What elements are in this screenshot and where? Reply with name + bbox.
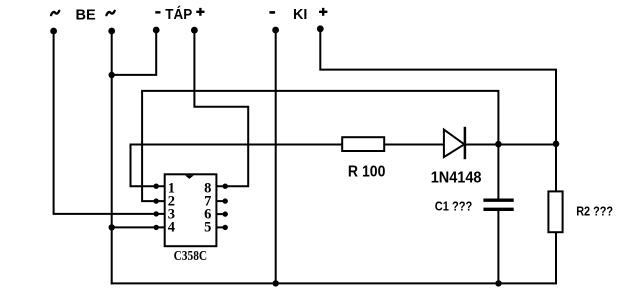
capacitor C1 xyxy=(483,200,513,209)
terminal label + (KI) xyxy=(319,8,327,16)
terminal KI - xyxy=(272,27,279,34)
wire R2 to bottom rail xyxy=(555,232,557,283)
pin 5 xyxy=(204,220,228,236)
wire TÁP- to BE~ right vertical xyxy=(112,30,157,75)
pin 7 xyxy=(204,194,228,210)
terminal KI + xyxy=(317,25,324,32)
junction BE~/TÁP- xyxy=(109,72,115,78)
svg-text:R2 ???: R2 ??? xyxy=(576,204,613,218)
node A (D1 cathode / C1 top) xyxy=(495,141,502,148)
wire TÁP+ to pin8 xyxy=(194,30,248,186)
wire node A to capacitor C1 xyxy=(497,145,499,199)
pin 8 xyxy=(204,181,228,197)
svg-text:1N4148: 1N4148 xyxy=(431,169,482,186)
svg-text:BE: BE xyxy=(76,6,96,23)
pin 4 xyxy=(154,220,175,236)
svg-text:C1 ???: C1 ??? xyxy=(435,199,473,213)
wire BE~ right down to bottom rail xyxy=(111,31,113,283)
svg-text:KI: KI xyxy=(293,6,307,23)
resistor R1 xyxy=(342,137,384,151)
junction KI- on bottom rail xyxy=(273,280,279,286)
wire KI+ to node B xyxy=(320,29,556,145)
wire pin2 to node A xyxy=(142,91,498,201)
terminal label ~ (BE right) xyxy=(106,11,114,15)
svg-text:4: 4 xyxy=(168,220,175,236)
wire pin1 to resistor R1 xyxy=(131,145,343,187)
svg-text:TÁP: TÁP xyxy=(165,6,192,23)
terminal label + (TÁP) xyxy=(196,8,204,16)
pin 2 xyxy=(154,194,175,210)
terminal BE ~ right xyxy=(108,28,115,35)
wire node B to resistor R2 xyxy=(555,145,557,192)
terminal label - (KI) xyxy=(269,11,275,14)
wire KI- down to bottom rail xyxy=(275,30,277,283)
wire bottom rail xyxy=(112,282,556,284)
wire R1 to diode D1 xyxy=(384,144,444,146)
diode D1 xyxy=(444,127,465,159)
svg-text:R 100: R 100 xyxy=(348,164,386,181)
wire D1 cathode to node B xyxy=(465,144,556,146)
terminal BE ~ left xyxy=(50,28,57,35)
node B (KI+ / R2 top) xyxy=(553,141,560,148)
junction C1 on bottom rail xyxy=(495,280,501,286)
pin 1 xyxy=(154,181,175,197)
svg-text:5: 5 xyxy=(204,220,211,236)
wire pin4 to BE~ right vertical xyxy=(112,226,166,228)
terminal TÁP - xyxy=(153,27,160,34)
junction pin4 tap xyxy=(109,224,115,230)
terminal TÁP + xyxy=(191,27,198,34)
wire BE~ left to pin3 xyxy=(54,31,166,214)
terminal label - (TÁP) xyxy=(155,11,160,14)
wire C1 to bottom rail xyxy=(497,211,499,284)
pin 6 xyxy=(204,206,228,222)
pin 3 xyxy=(154,206,175,222)
terminal label ~ (BE left) xyxy=(51,11,59,15)
resistor R2 xyxy=(548,191,562,232)
svg-text:C358C: C358C xyxy=(174,248,208,263)
op-amp U1 C358C body xyxy=(165,174,217,246)
